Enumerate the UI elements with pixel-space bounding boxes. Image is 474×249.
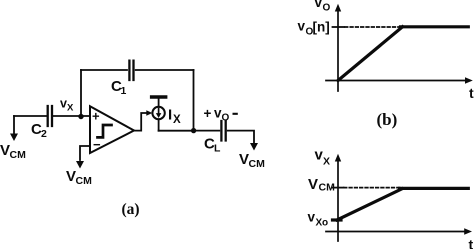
svg-text:+: + bbox=[92, 109, 100, 124]
wire op-amp minus input bbox=[80, 146, 90, 160]
supply stub above current source bbox=[158, 98, 160, 107]
flat segment bottom plot bbox=[400, 187, 469, 190]
svg-text:V: V bbox=[0, 142, 10, 159]
svg-text:(a): (a) bbox=[122, 201, 140, 218]
label VCM level bbox=[308, 176, 335, 194]
svg-text:−: − bbox=[93, 137, 101, 152]
label vXo bbox=[308, 210, 329, 229]
svg-text:V: V bbox=[308, 176, 318, 193]
dashed level VCM bbox=[344, 187, 400, 189]
label VCM below op-amp bbox=[66, 168, 92, 187]
wire C2 to node vX bbox=[52, 115, 90, 117]
label vX axis bbox=[315, 147, 331, 168]
wire input left horizontal to C2 bbox=[14, 115, 47, 117]
supply T-bar bbox=[152, 95, 166, 98]
V_CM arrow below op-amp bbox=[76, 161, 84, 169]
svg-text:V: V bbox=[239, 151, 249, 168]
svg-text:o: o bbox=[322, 218, 328, 229]
svg-text:v: v bbox=[315, 0, 323, 10]
label VCM left bbox=[0, 142, 26, 161]
wire feedback right vertical bbox=[193, 70, 195, 131]
svg-text:V: V bbox=[66, 168, 76, 185]
capacitor CL bbox=[221, 121, 225, 141]
PLOT bottom bbox=[326, 154, 472, 241]
svg-text:[n]: [n] bbox=[313, 20, 330, 35]
arrowhead into current source bbox=[146, 110, 152, 116]
svg-text:+: + bbox=[204, 106, 212, 121]
svg-text:CM: CM bbox=[319, 182, 336, 194]
wire op-amp output stub bbox=[134, 113, 147, 131]
ramp start cap vXo bbox=[333, 218, 342, 221]
label C2 bbox=[31, 121, 47, 140]
ramp segment top plot bbox=[338, 27, 403, 81]
x-axis t bottom plot bbox=[326, 231, 464, 233]
label + vO - above CL bbox=[204, 106, 238, 124]
y-axis vX bbox=[337, 161, 339, 241]
op-amp U1 bbox=[90, 106, 134, 153]
wire current source down to output line bbox=[158, 119, 160, 131]
wire output line to junction bbox=[159, 130, 194, 132]
label vO[n] bbox=[298, 19, 330, 38]
tick VCM level bbox=[333, 187, 344, 189]
y-axis vO bbox=[337, 11, 339, 92]
flat segment top plot bbox=[401, 25, 469, 28]
PLOT (b) top bbox=[326, 4, 473, 91]
x-axis t top plot bbox=[326, 80, 465, 82]
output junction dot bbox=[191, 128, 196, 133]
V_CM arrow left bbox=[10, 134, 18, 142]
label C1 bbox=[111, 78, 127, 97]
current source IX circle bbox=[152, 107, 164, 119]
svg-text:O: O bbox=[222, 113, 230, 124]
wire CL to right bbox=[228, 131, 254, 143]
svg-text:(b): (b) bbox=[377, 110, 398, 129]
ramp segment bottom plot bbox=[337, 189, 402, 220]
svg-text:2: 2 bbox=[41, 128, 47, 140]
svg-text:CM: CM bbox=[249, 158, 266, 170]
V_CM arrow right bbox=[250, 143, 258, 151]
svg-text:X: X bbox=[173, 114, 181, 126]
svg-text:X: X bbox=[323, 156, 330, 168]
svg-text:CM: CM bbox=[10, 149, 27, 161]
svg-text:X: X bbox=[67, 103, 74, 114]
svg-text:t: t bbox=[469, 237, 474, 249]
op-amp slew step symbol bbox=[98, 125, 112, 137]
svg-text:O: O bbox=[323, 3, 331, 14]
svg-text:CM: CM bbox=[76, 175, 93, 187]
svg-text:L: L bbox=[214, 143, 221, 155]
label IX bbox=[168, 107, 181, 127]
wire junction to CL bbox=[194, 130, 220, 132]
dashed level vO[n] bbox=[345, 26, 402, 28]
svg-text:I: I bbox=[168, 107, 172, 124]
label VCM right bbox=[239, 151, 265, 170]
label vO axis bbox=[315, 0, 331, 14]
wire V_CM stub left bbox=[13, 116, 15, 134]
svg-text:t: t bbox=[469, 85, 474, 101]
capacitor C1 bbox=[129, 61, 133, 80]
label CL bbox=[204, 136, 221, 155]
capacitor C2 bbox=[48, 106, 52, 126]
svg-text:1: 1 bbox=[121, 85, 127, 97]
wire feedback top left bbox=[81, 69, 127, 71]
node vX junction dot bbox=[78, 114, 83, 119]
wire node vX up to feedback bbox=[80, 70, 82, 116]
svg-text:v: v bbox=[308, 210, 316, 225]
wire feedback top right bbox=[136, 69, 194, 71]
svg-text:v: v bbox=[298, 19, 306, 34]
svg-text:v: v bbox=[60, 97, 67, 111]
tick vO[n] bbox=[333, 26, 345, 28]
label vX node bbox=[60, 97, 74, 114]
current source inner arrow bbox=[158, 109, 160, 114]
